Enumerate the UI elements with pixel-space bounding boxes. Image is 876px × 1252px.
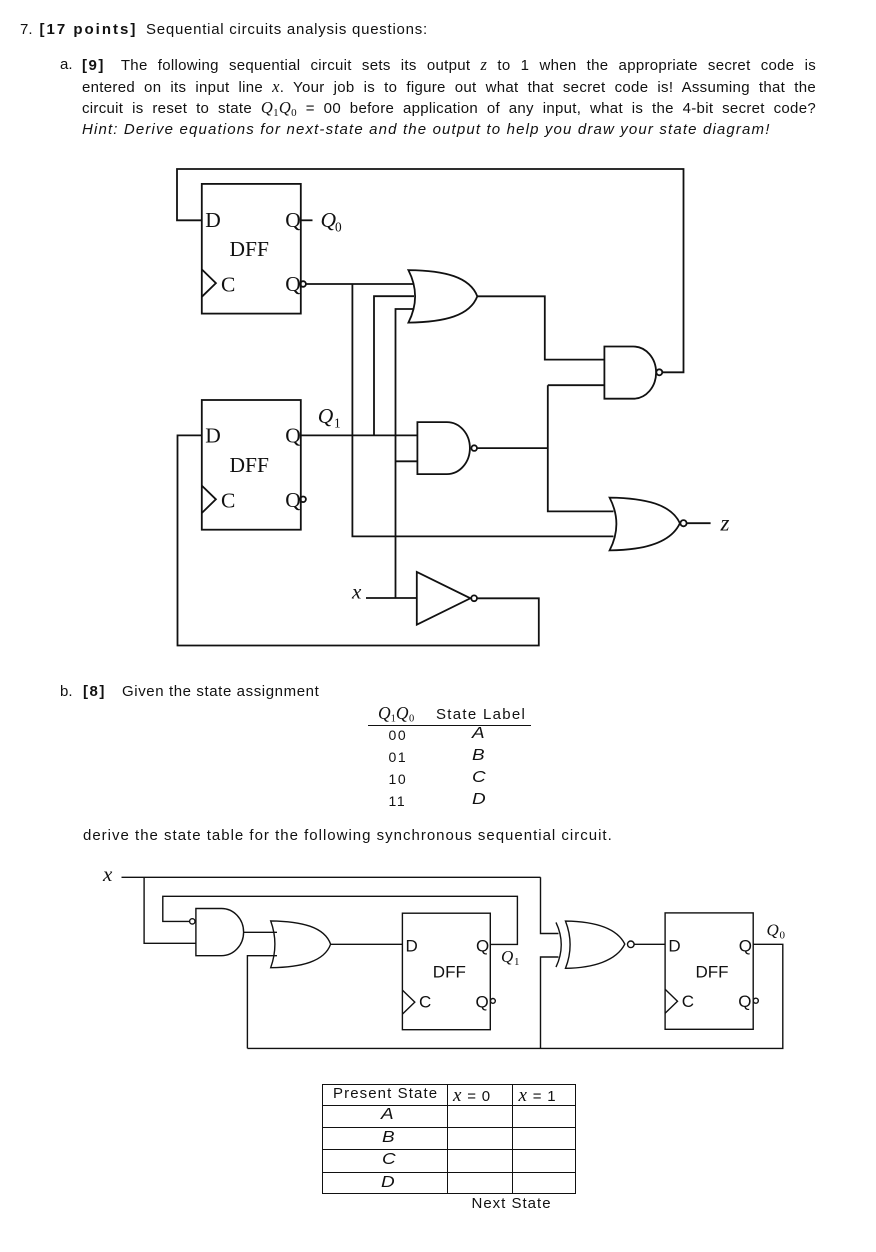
item b line [60,681,73,702]
xnor-gate G8 outer input arc [556,922,561,967]
inverter G5 body [417,572,471,625]
wire: x branch down to AND G6 input 2 [144,877,196,943]
DFF1 Q-bar bubble [300,281,306,287]
svg-text:D: D [406,937,418,956]
label Q0 (circuit b) [767,920,786,941]
D flip-flop DFF3 (Q1) body [402,913,490,1029]
DFF4 name label [696,963,729,982]
svg-text:C: C [419,993,431,1012]
D flip-flop DFF2 (Q1) body [202,400,301,530]
svg-text:D: D [205,423,221,447]
label x (circuit a input) [351,580,362,604]
wire: NAND G2 output net to NAND G3 input 2 and NOR G4 input 1 [477,385,614,511]
nand-gate G3 output bubble [656,369,662,375]
svg-text:C: C [682,992,694,1011]
xnor-gate G8 output bubble [628,941,635,948]
item a paragraph [60,54,73,75]
DFF4 Q-bar bubble [753,998,758,1003]
svg-text:Q: Q [501,947,513,966]
DFF4 pin Q-bar label [738,992,751,1011]
svg-text:x: x [102,862,113,886]
svg-text:DFF: DFF [230,237,269,261]
svg-text:1: 1 [334,415,341,430]
wire: Q1 feedback to G6 bubbled input [163,896,518,944]
svg-text:Q: Q [285,272,301,296]
wire: Q0 feedback up to OR G7 input 2 [247,956,277,1049]
wire: DFF4 Q0 output feedback loop (bottom rail) [247,944,782,1048]
svg-text:Q: Q [738,992,751,1011]
DFF4 pin D label [668,936,680,955]
wire: x input rail [122,876,541,878]
svg-text:1: 1 [514,956,520,968]
svg-text:0: 0 [335,219,342,234]
state assignment table [378,703,414,725]
DFF3 Q-bar bubble [491,999,496,1004]
wire: Q0 feedback rise to XNOR G8 input 2 [541,957,559,1048]
or-gate G7 body [271,921,331,968]
D flip-flop DFF4 (Q0) body [665,913,753,1029]
or-gate G1 (3-input) [408,270,477,323]
derive line [83,825,613,846]
DFF1 clock triangle [202,269,216,296]
svg-text:Q: Q [318,404,334,428]
DFF2 pin D label [205,423,221,447]
svg-text:DFF: DFF [433,963,466,982]
nand-gate G3 body [604,347,656,399]
DFF3 clock triangle [402,990,414,1014]
D flip-flop DFF1 (Q0) body [202,184,301,314]
DFF1 Q output tick [301,219,313,221]
label z (circuit a output) [720,511,730,536]
DFF4 pin Q label [739,936,752,955]
DFF3 name label [433,963,466,982]
svg-text:Q: Q [767,920,779,939]
nand-gate G2 output bubble [471,445,477,451]
svg-text:D: D [668,936,680,955]
svg-text:Q: Q [285,488,301,512]
DFF3 pin D label [406,937,418,956]
wire: x branch to NAND G2 input 2 [396,460,418,462]
wire: OR G1 output to NAND G3 input 1 [477,296,604,359]
wire: inverter G5 output feedback to DFF2 D [178,435,539,645]
svg-text:Q: Q [739,936,752,955]
DFF3 pin Q-bar label [476,993,489,1012]
wire: x input to inverter G5 [366,597,417,599]
svg-text:C: C [221,273,235,297]
DFF4 clock triangle [665,989,677,1013]
wire: x rail drop to XNOR G8 input 1 [541,877,559,933]
DFF3 pin Q label [476,937,489,956]
label Q1 [318,404,341,430]
wire: x branch up to OR G1 input 3 [396,309,414,598]
and-gate G6 body (bubbled input) [196,909,244,956]
svg-text:z: z [720,511,730,536]
DFF4 pin C label [682,992,694,1011]
DFF3 pin C label [419,993,431,1012]
label Q0 [321,208,343,234]
DFF2 pin Q-bar label [285,488,301,512]
heading line [20,19,33,40]
state table (Present State / x=0 / x=1) [322,1084,576,1194]
svg-text:Q: Q [285,208,301,232]
DFF2 clock triangle [202,486,216,513]
G6 input bubble [190,919,195,924]
xnor-gate G8 body [566,921,625,968]
wire: OR G7 output to DFF3 D [331,943,403,945]
wire: G6 output to OR G7 input 1 [244,931,277,933]
inverter G5 output bubble [471,595,477,601]
svg-text:DFF: DFF [230,453,269,477]
svg-text:C: C [221,489,235,513]
DFF1 pin Q-bar label [285,272,301,296]
DFF1 name label [230,237,269,261]
nand-gate G2 body [417,422,470,474]
svg-text:x: x [351,580,362,604]
label x (circuit b input) [102,862,113,886]
wire: Q1 from DFF2 to NAND G2 input 1 [301,434,418,436]
DFF2 name label [230,453,269,477]
table rule [368,725,531,727]
DFF1 pin C label [221,273,235,297]
svg-text:0: 0 [780,929,786,941]
svg-text:Q: Q [476,937,489,956]
wire: NOR G4 output to z [687,522,711,524]
DFF1 pin D label [205,208,221,232]
DFF1 pin Q label [285,208,301,232]
wire: Q1 branch up to OR G1 input 2 [374,296,414,435]
label Q1 (circuit b) [501,947,520,968]
nor-gate G4 output bubble [680,520,686,526]
wire: DFF1 D feedback from NAND G3 output (top loop) [177,169,684,372]
wire: XNOR G8 output to DFF4 D [634,943,665,945]
svg-text:DFF: DFF [696,963,729,982]
DFF2 pin Q label [285,423,301,447]
svg-text:Q: Q [476,993,489,1012]
wire: Q0' branch down to NOR G4 input 2 [352,284,613,536]
DFF2 pin C label [221,489,235,513]
svg-text:Q: Q [285,423,301,447]
svg-text:D: D [205,208,221,232]
wire: Q0' from DFF1 to OR G1 input 1 [306,283,414,285]
DFF2 Q-bar bubble [300,497,306,503]
nor-gate G4 body [610,498,680,551]
